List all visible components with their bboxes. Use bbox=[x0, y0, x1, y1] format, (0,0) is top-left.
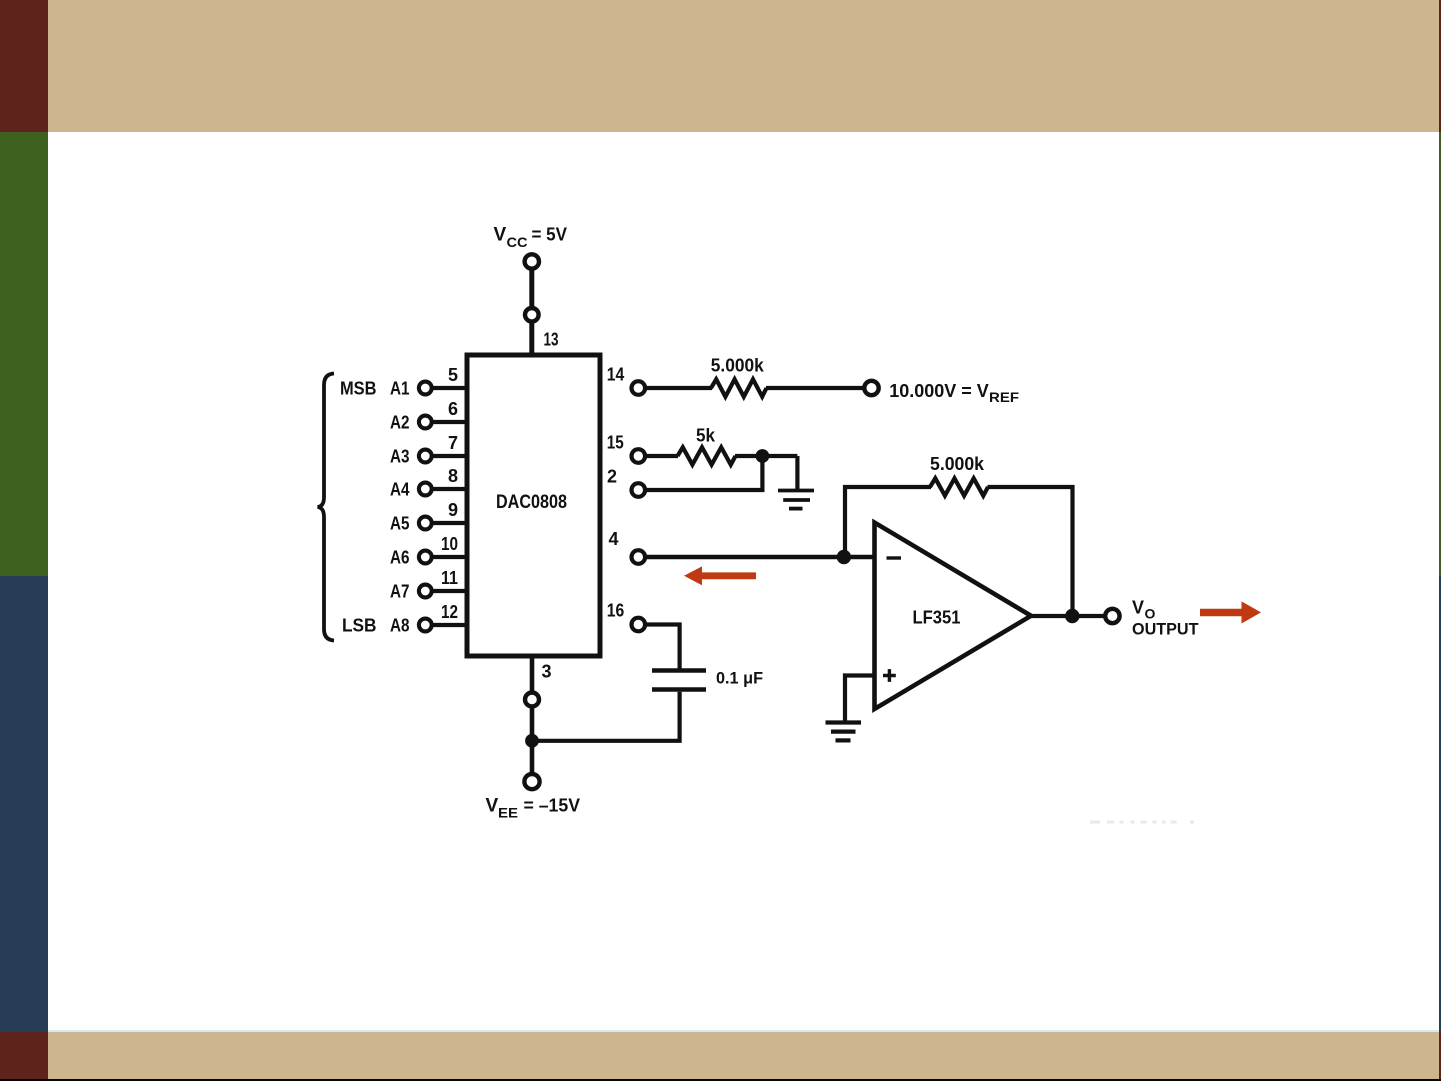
terminal A1 bbox=[419, 382, 432, 395]
ground G1 bar 1 bbox=[778, 489, 814, 493]
terminal pin 2 bbox=[632, 483, 646, 497]
wire capacitor C1 down and left to VEE node bbox=[532, 692, 680, 741]
svg-text:A3: A3 bbox=[390, 447, 410, 467]
svg-text:5: 5 bbox=[448, 365, 458, 385]
top-left dark red square bbox=[0, 0, 48, 132]
terminal pin 13 junction circle bbox=[525, 308, 539, 322]
svg-text:A8: A8 bbox=[390, 616, 410, 636]
svg-text:OUTPUT: OUTPUT bbox=[1132, 620, 1199, 639]
wire node N1 down to pin 2 line bbox=[760, 456, 764, 490]
terminal A4 bbox=[419, 483, 432, 496]
wire pin A8 bbox=[431, 623, 468, 627]
svg-text:DAC0808: DAC0808 bbox=[496, 491, 567, 513]
wire non-inverting input bbox=[845, 676, 875, 721]
wire pin 15 to resistor R2 bbox=[645, 454, 678, 458]
wire node N1 to ground stem bbox=[762, 454, 797, 458]
svg-text:A1: A1 bbox=[390, 379, 410, 399]
svg-text:15: 15 bbox=[607, 433, 624, 453]
wire pin 4 to inverting node N2 bbox=[645, 555, 874, 560]
svg-text:2: 2 bbox=[607, 467, 617, 487]
op-amp U2 triangle bbox=[875, 523, 1032, 710]
svg-text:5.000k: 5.000k bbox=[711, 356, 765, 376]
svg-text:4: 4 bbox=[609, 529, 619, 549]
wire pin A7 bbox=[431, 589, 468, 593]
terminal pin 4 bbox=[632, 550, 646, 564]
op-amp plus sign bbox=[883, 669, 896, 682]
terminal pin 3 bbox=[525, 693, 539, 707]
feedback wire from resistor R3 right and down to output node N4 bbox=[988, 487, 1073, 616]
svg-text:= 5V: = 5V bbox=[532, 225, 568, 245]
top tan banner bbox=[48, 0, 1439, 132]
svg-text:MSB: MSB bbox=[340, 379, 377, 399]
right edge stripe green bbox=[1439, 132, 1441, 576]
ground G2 bar 2 bbox=[831, 729, 856, 733]
svg-text:A2: A2 bbox=[390, 413, 410, 433]
wire pin A5 bbox=[431, 521, 468, 525]
ground G1 bar 3 bbox=[789, 507, 803, 511]
right edge stripe red bottom bbox=[1439, 1032, 1441, 1081]
terminal A2 bbox=[419, 416, 432, 429]
right edge stripe navy bbox=[1439, 576, 1441, 1032]
wire pin 3 circle to node N3 bbox=[530, 708, 535, 735]
junction dot node N1 bbox=[756, 449, 770, 463]
svg-text:10.000V = V: 10.000V = V bbox=[889, 381, 989, 401]
terminal A7 bbox=[419, 585, 432, 598]
wire pin A1 bbox=[431, 386, 468, 390]
svg-text:3: 3 bbox=[542, 662, 552, 682]
svg-text:CC: CC bbox=[507, 234, 528, 250]
feedback wire from node N2 up and right to resistor R3 bbox=[845, 487, 931, 557]
svg-text:14: 14 bbox=[607, 365, 625, 385]
svg-text:12: 12 bbox=[441, 602, 458, 622]
svg-text:EE: EE bbox=[498, 805, 518, 821]
terminal A6 bbox=[419, 551, 432, 564]
svg-text:13: 13 bbox=[544, 330, 559, 350]
terminal A3 bbox=[419, 450, 432, 463]
svg-text:V: V bbox=[494, 225, 507, 246]
resistor R3 5.000k zigzag bbox=[930, 478, 988, 495]
svg-text:A7: A7 bbox=[390, 582, 410, 602]
terminal pin 14 bbox=[632, 381, 646, 395]
wire ground G1 stem bbox=[795, 456, 799, 490]
svg-text:5k: 5k bbox=[696, 426, 716, 446]
svg-text:6: 6 bbox=[448, 399, 458, 419]
svg-text:7: 7 bbox=[448, 433, 458, 453]
svg-text:0.1 μF: 0.1 μF bbox=[716, 669, 763, 688]
terminal A5 bbox=[419, 517, 432, 530]
terminal VO output bbox=[1105, 609, 1119, 623]
terminal A8 bbox=[419, 619, 432, 632]
wire pin A3 bbox=[431, 454, 468, 458]
wire pin 3 stem bbox=[530, 656, 535, 691]
junction dot node N2 inverting input bbox=[837, 550, 851, 564]
svg-text:LSB: LSB bbox=[342, 616, 377, 636]
svg-text:11: 11 bbox=[441, 568, 458, 588]
wire resistor R1 to VREF terminal bbox=[766, 386, 865, 390]
wire pin 14 to resistor R1 bbox=[645, 386, 712, 390]
bottom black rule bbox=[0, 1079, 1441, 1081]
svg-text:5.000k: 5.000k bbox=[930, 454, 985, 474]
svg-text:V: V bbox=[1132, 598, 1144, 618]
wire VCC vertical upper bbox=[529, 268, 534, 309]
faint erased watermark dashes bbox=[1090, 821, 1100, 824]
left green bar bbox=[0, 132, 48, 576]
wire op-amp output to terminal bbox=[1031, 614, 1106, 618]
wire node N3 to VEE terminal bbox=[530, 746, 535, 773]
red arrow pointing left at inverting input wire bbox=[684, 566, 756, 585]
resistor R2 5k zigzag bbox=[678, 447, 736, 464]
junction dot node N3 VEE bbox=[525, 734, 539, 748]
bottom-left dark red square bbox=[0, 1032, 48, 1081]
wire pin A6 bbox=[431, 555, 468, 559]
ground G2 bar 3 bbox=[836, 738, 851, 742]
terminal VREF bbox=[864, 381, 878, 395]
IC U1 DAC0808 body bbox=[467, 355, 600, 656]
terminal VCC bbox=[525, 254, 539, 268]
svg-text:A6: A6 bbox=[390, 548, 410, 568]
brace for digital inputs bbox=[318, 374, 335, 641]
resistor R1 5.000k zigzag bbox=[711, 379, 767, 396]
svg-text:10: 10 bbox=[441, 534, 458, 554]
junction dot node N4 output bbox=[1065, 609, 1079, 623]
capacitor C1 bottom plate bbox=[652, 687, 706, 692]
svg-text:16: 16 bbox=[607, 601, 625, 621]
wire pin A4 bbox=[431, 487, 468, 491]
red arrow pointing right at output bbox=[1200, 601, 1261, 623]
svg-text:V: V bbox=[486, 796, 499, 817]
wire resistor R2 to node N1 bbox=[735, 454, 762, 458]
ground G2 bar 1 bbox=[826, 720, 862, 724]
bottom tan banner bbox=[48, 1032, 1439, 1079]
wire pin 16 horizontal bbox=[645, 625, 680, 669]
svg-text:8: 8 bbox=[448, 466, 458, 486]
svg-text:9: 9 bbox=[448, 500, 458, 520]
svg-text:= –15V: = –15V bbox=[524, 796, 581, 816]
light blue hairline above bottom banner bbox=[48, 1030, 1439, 1032]
op-amp minus sign bbox=[887, 556, 902, 559]
svg-text:A4: A4 bbox=[390, 480, 410, 500]
wire VCC vertical lower to pin 13 bbox=[529, 321, 534, 356]
terminal pin 15 bbox=[632, 449, 646, 463]
wire pin A2 bbox=[431, 420, 468, 424]
wire pin 2 bbox=[645, 488, 765, 492]
terminal pin 16 bbox=[632, 618, 646, 632]
terminal VEE bbox=[524, 774, 539, 789]
svg-text:A5: A5 bbox=[390, 514, 410, 534]
capacitor C1 top plate bbox=[652, 668, 706, 673]
svg-text:REF: REF bbox=[989, 389, 1019, 405]
ground G1 bar 2 bbox=[783, 498, 810, 502]
right edge stripe red top bbox=[1439, 0, 1441, 132]
left navy bar bbox=[0, 576, 48, 1032]
svg-text:LF351: LF351 bbox=[913, 608, 961, 628]
